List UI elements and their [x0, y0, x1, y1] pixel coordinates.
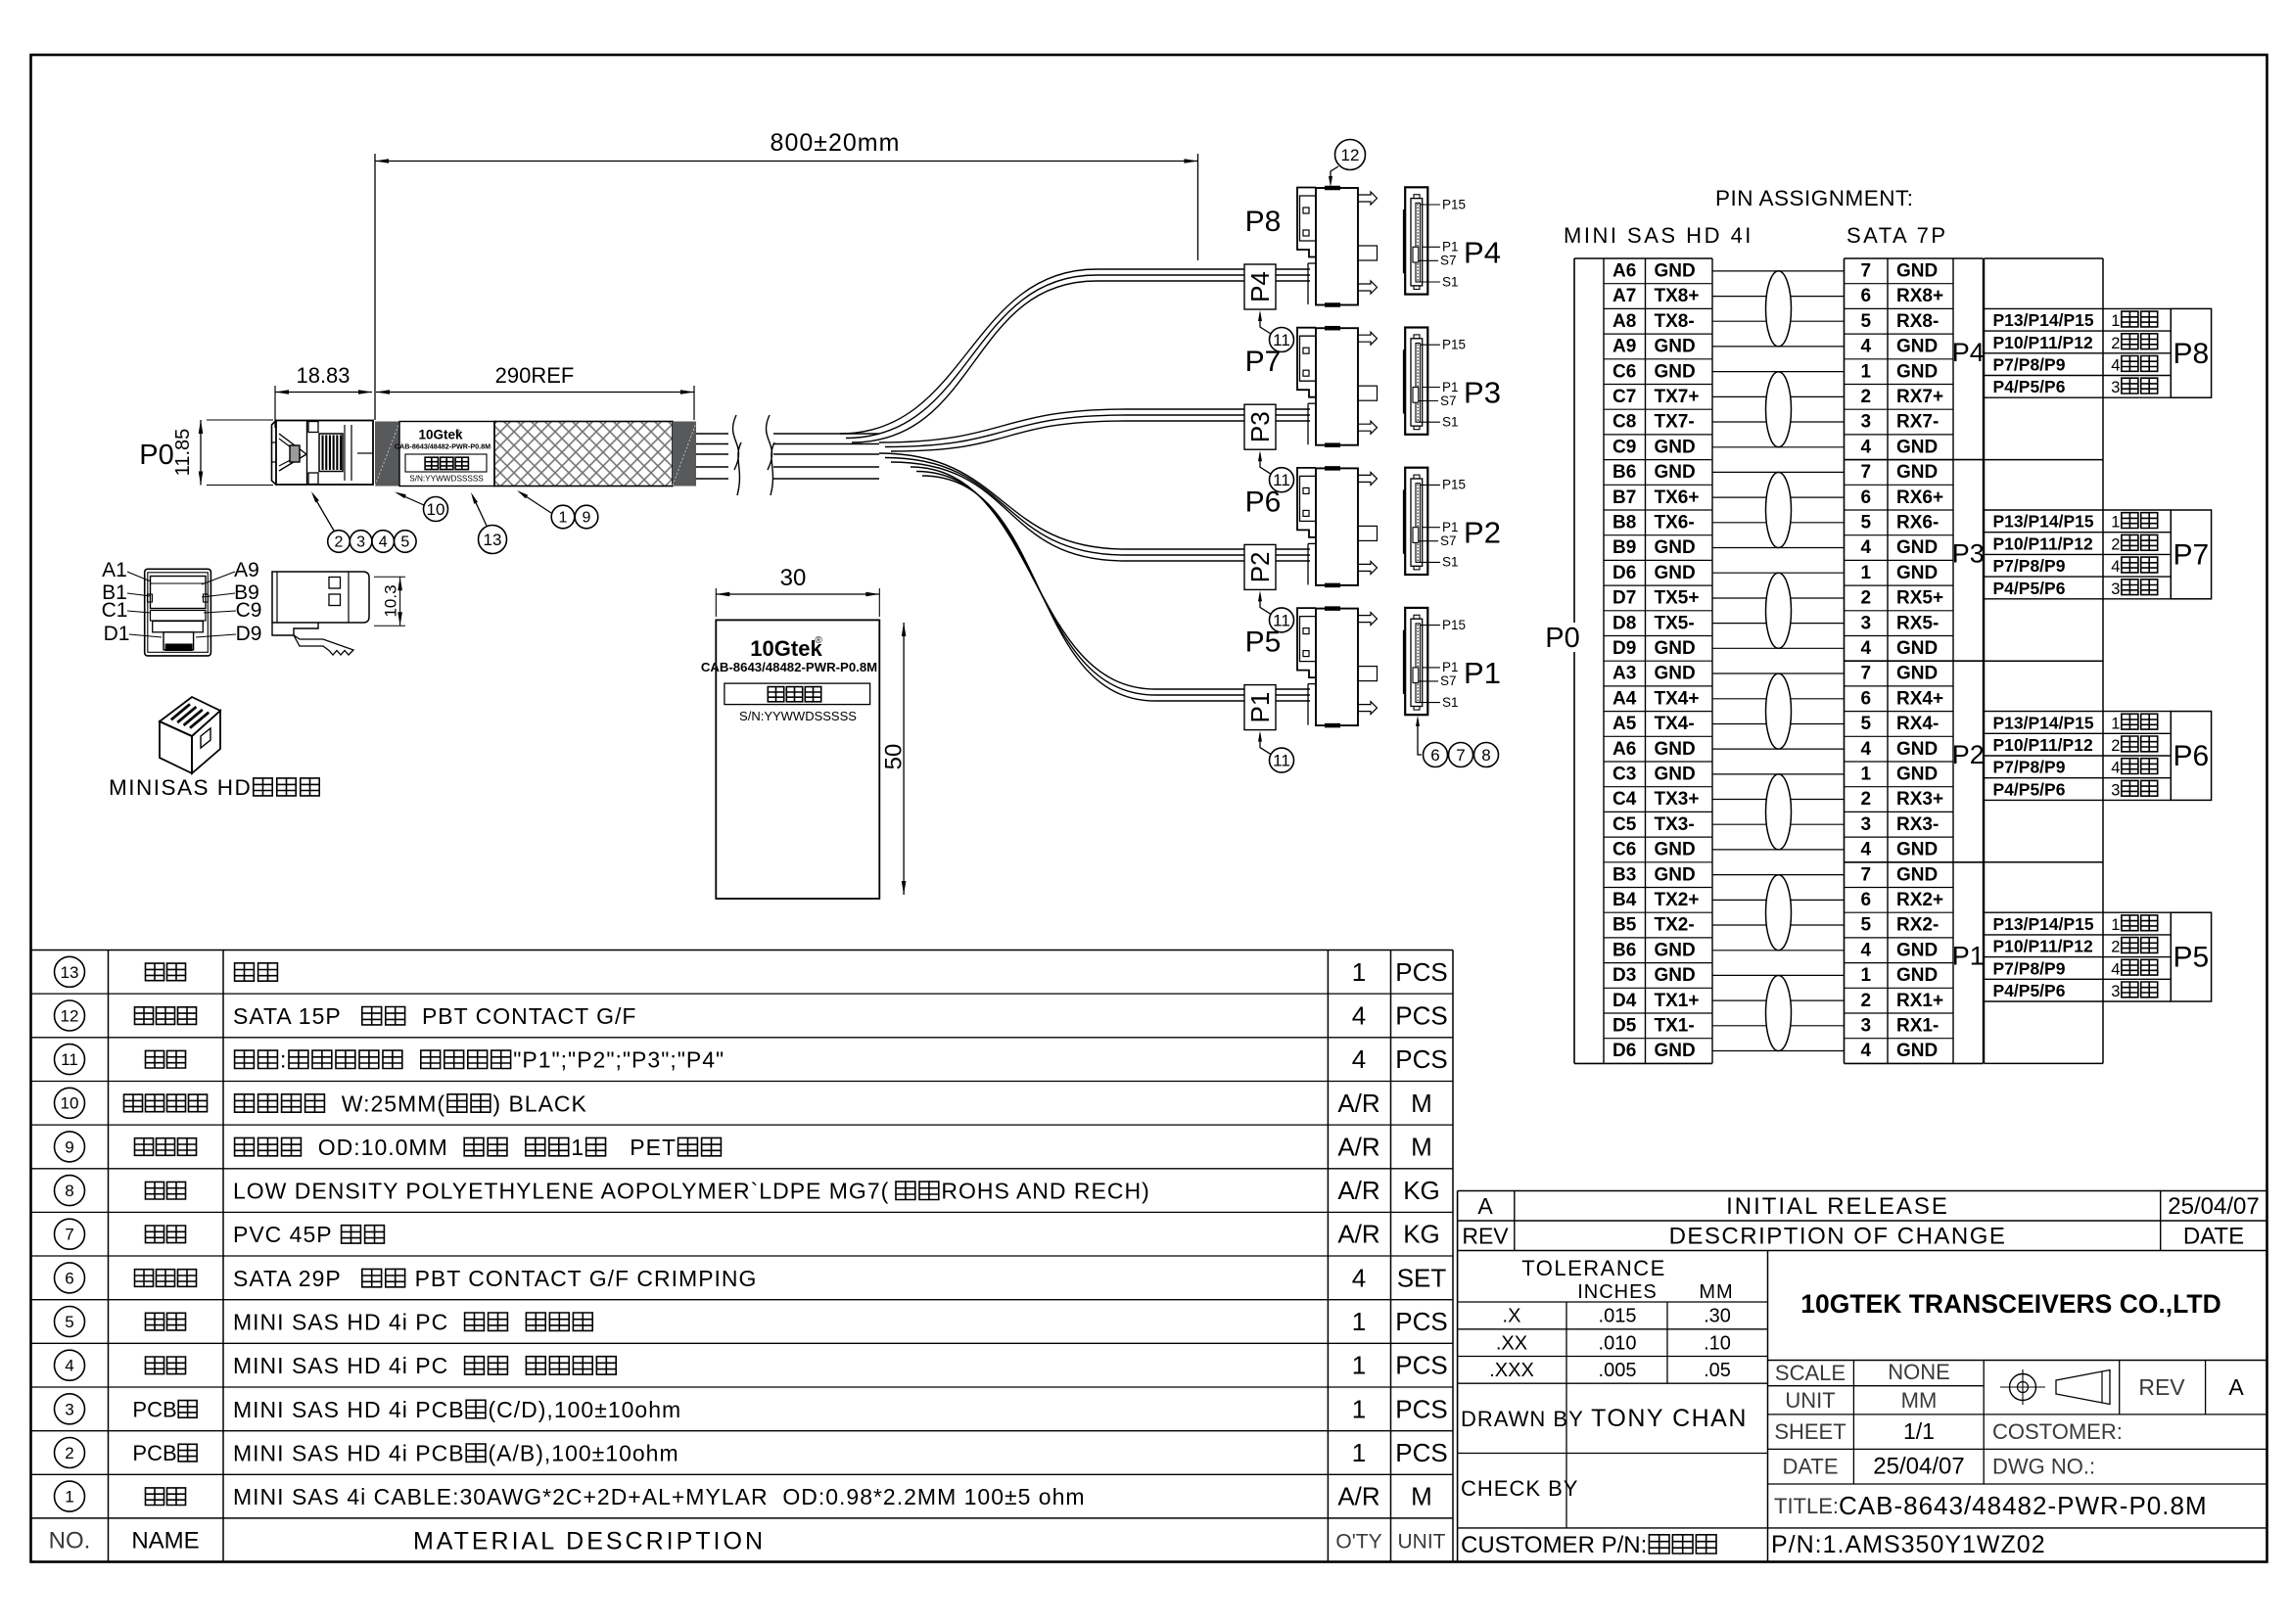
svg-text:MATERIAL DESCRIPTION: MATERIAL DESCRIPTION — [413, 1527, 766, 1554]
svg-text:12: 12 — [61, 1006, 79, 1025]
svg-text:4: 4 — [379, 534, 388, 551]
svg-text:1: 1 — [2111, 312, 2120, 330]
svg-text:P10/P11/P12: P10/P11/P12 — [1993, 735, 2093, 755]
svg-text:P7: P7 — [1245, 346, 1282, 378]
svg-text:1: 1 — [1352, 1351, 1366, 1380]
svg-text:NONE: NONE — [1888, 1360, 1950, 1384]
svg-text:13: 13 — [484, 531, 502, 549]
svg-text:RX1+: RX1+ — [1896, 991, 1943, 1011]
svg-text:TX8+: TX8+ — [1655, 286, 1700, 306]
svg-text:GND: GND — [1896, 864, 1938, 885]
BOM row item 6 — [55, 1263, 1447, 1293]
svg-text:PIN ASSIGNMENT:: PIN ASSIGNMENT: — [1715, 186, 1914, 210]
svg-text:P1: P1 — [1464, 656, 1501, 690]
svg-text:CAB-8643/48482-PWR-P0.8M: CAB-8643/48482-PWR-P0.8M — [701, 660, 877, 674]
svg-text:25/04/07: 25/04/07 — [2168, 1193, 2259, 1220]
svg-text:TX2-: TX2- — [1655, 915, 1695, 936]
svg-text:P15: P15 — [1442, 618, 1466, 632]
svg-text:P10/P11/P12: P10/P11/P12 — [1993, 333, 2093, 352]
svg-text:7: 7 — [1861, 664, 1872, 684]
svg-text:D5: D5 — [1612, 1016, 1637, 1037]
svg-text:C1: C1 — [102, 599, 128, 622]
svg-text:9: 9 — [583, 510, 591, 527]
svg-text:3: 3 — [1861, 1016, 1872, 1037]
svg-text:MM: MM — [1699, 1281, 1733, 1303]
svg-text:2: 2 — [2111, 737, 2120, 755]
svg-text:P4/P5/P6: P4/P5/P6 — [1993, 579, 2066, 598]
BOM row item 8 — [55, 1176, 1440, 1206]
svg-text:GND: GND — [1896, 664, 1938, 684]
svg-text:10GTEK TRANSCEIVERS CO.,LTD: 10GTEK TRANSCEIVERS CO.,LTD — [1800, 1289, 2220, 1319]
svg-text:290REF: 290REF — [495, 363, 575, 388]
svg-text:P3: P3 — [1464, 376, 1501, 410]
svg-text:S1: S1 — [1442, 274, 1459, 289]
svg-text::: : — [280, 1047, 287, 1073]
svg-text:LOW DENSITY POLYETHYLENE AOPOL: LOW DENSITY POLYETHYLENE AOPOLYMER`LDPE … — [233, 1179, 889, 1204]
svg-text:D6: D6 — [1612, 563, 1636, 583]
svg-text:B7: B7 — [1612, 487, 1636, 508]
svg-text:.X: .X — [1503, 1306, 1521, 1327]
svg-text:P2: P2 — [1952, 740, 1985, 769]
svg-text:B6: B6 — [1612, 462, 1636, 483]
svg-text:NAME: NAME — [131, 1527, 199, 1554]
svg-text:TX3+: TX3+ — [1655, 789, 1700, 810]
SATA 7P heading — [1846, 223, 1948, 248]
svg-text:S1: S1 — [1442, 555, 1459, 570]
svg-text:.05: .05 — [1704, 1360, 1731, 1381]
svg-text:A9: A9 — [1612, 337, 1636, 357]
svg-text:SET: SET — [1397, 1263, 1447, 1292]
svg-text:1: 1 — [1861, 563, 1872, 583]
BOM row item 4 — [55, 1350, 1448, 1380]
svg-text:TX4-: TX4- — [1655, 714, 1695, 734]
MINISAS HD dust cap 3D view — [160, 697, 220, 773]
MINI SAS HD 4I heading — [1564, 223, 1753, 248]
BOM row item 2 — [55, 1438, 1448, 1468]
svg-text:5: 5 — [1861, 311, 1872, 332]
svg-text:P5: P5 — [1245, 626, 1282, 659]
dimension 290REF — [376, 363, 694, 420]
svg-text:RX8-: RX8- — [1896, 311, 1939, 332]
svg-text:SATA 29P: SATA 29P — [233, 1266, 355, 1291]
braided mesh sleeve (items 1,9) — [494, 422, 673, 487]
connector P4 SATA 7P+15P receptacle (front) — [1404, 187, 1501, 294]
svg-text:GND: GND — [1896, 1041, 1938, 1061]
svg-text:P0: P0 — [139, 440, 173, 471]
svg-text:CHECK BY: CHECK BY — [1461, 1476, 1578, 1501]
svg-text:KG: KG — [1403, 1220, 1440, 1249]
svg-text:PCB: PCB — [132, 1441, 176, 1465]
circled 6 7 8 leader (SATA 29P connector) — [1416, 716, 1499, 767]
connector P2 SATA 7P+15P receptacle (front) — [1404, 468, 1501, 575]
svg-text:RX6-: RX6- — [1896, 513, 1939, 534]
svg-text:P15: P15 — [1442, 478, 1466, 492]
dimension 800±20mm — [375, 129, 1198, 420]
svg-text:GND: GND — [1896, 638, 1938, 659]
svg-text:C8: C8 — [1612, 412, 1636, 433]
MINISAS HD dust cap caption — [109, 775, 319, 800]
svg-text:P4/P5/P6: P4/P5/P6 — [1993, 981, 2066, 1000]
svg-text:3: 3 — [2111, 379, 2120, 396]
svg-text:11: 11 — [1273, 752, 1290, 770]
svg-text:7: 7 — [1861, 462, 1872, 483]
svg-text:PCS: PCS — [1395, 1394, 1447, 1423]
svg-text:4: 4 — [1352, 1001, 1366, 1031]
svg-text:PVC 45P: PVC 45P — [233, 1222, 340, 1247]
svg-text:9: 9 — [65, 1137, 73, 1156]
BOM material table — [31, 951, 1454, 1562]
svg-text:P3: P3 — [1952, 538, 1985, 568]
svg-text:D3: D3 — [1612, 965, 1636, 986]
svg-text:S/N:YYWWDSSSSS: S/N:YYWWDSSSSS — [409, 475, 484, 484]
svg-text:OD:10.0MM: OD:10.0MM — [304, 1135, 463, 1160]
connector P5 SATA 15P power (item 12) — [1245, 608, 1378, 725]
BOM row item 10 — [55, 1088, 1432, 1118]
wire bundle with break symbol — [696, 415, 879, 495]
svg-text:.10: .10 — [1704, 1332, 1731, 1354]
svg-text:TX6-: TX6- — [1655, 513, 1695, 534]
svg-text:D6: D6 — [1612, 1041, 1636, 1061]
revision row A INITIAL RELEASE — [1458, 1191, 2267, 1562]
connector P8 SATA 15P power (item 12) — [1245, 188, 1378, 305]
svg-text:GND: GND — [1655, 739, 1696, 760]
svg-text:3: 3 — [2111, 781, 2120, 799]
svg-text:MINI SAS HD 4i PCB: MINI SAS HD 4i PCB — [233, 1441, 465, 1466]
svg-text:P7: P7 — [2173, 538, 2210, 571]
svg-text:P2: P2 — [1245, 551, 1275, 582]
svg-text:P0: P0 — [1545, 623, 1579, 654]
BOM row item 5 — [55, 1307, 1448, 1337]
svg-text:2: 2 — [2111, 335, 2120, 352]
svg-text:8: 8 — [1481, 746, 1490, 765]
svg-text:GND: GND — [1896, 940, 1938, 960]
label box P4 on wire bundle (item 11) — [1244, 264, 1276, 309]
svg-text:3: 3 — [2111, 983, 2120, 1000]
color table group P8 — [1985, 308, 2212, 397]
customer p/n cell — [1461, 1532, 1716, 1558]
svg-text:GND: GND — [1655, 864, 1696, 885]
svg-text:SHEET: SHEET — [1774, 1419, 1846, 1444]
svg-text:P13/P14/P15: P13/P14/P15 — [1993, 914, 2094, 934]
svg-text:B9: B9 — [1612, 537, 1636, 558]
svg-text:"P1";"P2";"P3";"P4": "P1";"P2";"P3";"P4" — [513, 1047, 724, 1073]
svg-text:3: 3 — [2111, 580, 2120, 598]
svg-text:D7: D7 — [1612, 588, 1636, 609]
BOM row item 12 — [55, 1000, 1448, 1031]
svg-text:.005: .005 — [1599, 1360, 1637, 1381]
circled 2 3 4 5 callouts — [311, 491, 416, 552]
svg-text:C9: C9 — [236, 599, 262, 622]
svg-text:.010: .010 — [1599, 1332, 1637, 1354]
color table group P6 — [1985, 712, 2212, 801]
svg-text:10Gtek: 10Gtek — [750, 636, 822, 661]
svg-text:D9: D9 — [1612, 638, 1636, 659]
svg-text:.30: .30 — [1704, 1306, 1731, 1327]
svg-text:S/N:YYWWDSSSSS: S/N:YYWWDSSSSS — [739, 709, 857, 723]
svg-text:A7: A7 — [1612, 286, 1636, 306]
svg-text:GND: GND — [1655, 664, 1696, 684]
svg-text:13: 13 — [61, 963, 79, 982]
svg-text:P13/P14/P15: P13/P14/P15 — [1993, 512, 2094, 532]
label box P2 on wire bundle (item 11) — [1244, 544, 1276, 589]
svg-text:P8: P8 — [2173, 338, 2210, 370]
svg-text:GND: GND — [1655, 765, 1696, 785]
svg-text:P1: P1 — [1952, 942, 1985, 971]
svg-text:GND: GND — [1896, 840, 1938, 860]
svg-text:3: 3 — [1861, 814, 1872, 835]
svg-text:P6: P6 — [2173, 740, 2210, 772]
svg-text:5: 5 — [1861, 714, 1872, 734]
svg-text:TX5+: TX5+ — [1655, 588, 1700, 609]
svg-text:S1: S1 — [1442, 415, 1459, 430]
svg-text:TX7+: TX7+ — [1655, 387, 1700, 407]
svg-text:1: 1 — [1352, 1394, 1366, 1423]
svg-text:MINI SAS HD 4i PC: MINI SAS HD 4i PC — [233, 1310, 463, 1335]
dimension 50 (label height) — [881, 623, 908, 895]
svg-text:DATE: DATE — [1782, 1455, 1838, 1479]
svg-text:GND: GND — [1655, 462, 1696, 483]
svg-text:MINI SAS HD 4I: MINI SAS HD 4I — [1564, 223, 1753, 248]
circled 13 callout — [471, 492, 507, 554]
svg-text:M: M — [1411, 1089, 1432, 1118]
svg-text:PBT CONTACT G/F: PBT CONTACT G/F — [407, 1003, 636, 1029]
svg-text:TX6+: TX6+ — [1655, 487, 1700, 508]
svg-text:INITIAL RELEASE: INITIAL RELEASE — [1726, 1193, 1949, 1220]
svg-text:1: 1 — [1352, 1307, 1366, 1336]
svg-text:P13/P14/P15: P13/P14/P15 — [1993, 713, 2094, 732]
svg-text:C7: C7 — [1612, 387, 1636, 407]
svg-text:A/R: A/R — [1337, 1132, 1379, 1161]
svg-text:PCS: PCS — [1395, 1438, 1447, 1467]
svg-text:1: 1 — [1861, 361, 1872, 382]
svg-text:A5: A5 — [1612, 714, 1637, 734]
svg-text:PCS: PCS — [1395, 1307, 1447, 1336]
MINI SAS HD 4I pin table — [1574, 258, 1712, 1063]
svg-text:3: 3 — [65, 1400, 73, 1418]
svg-text:COSTOMER:: COSTOMER: — [1992, 1419, 2123, 1444]
P0 bracket label — [1545, 623, 1579, 654]
svg-text:GND: GND — [1896, 765, 1938, 785]
cable label detail drawing — [701, 620, 879, 899]
svg-text:A/R: A/R — [1337, 1176, 1379, 1205]
svg-text:4: 4 — [1861, 337, 1872, 357]
svg-text:SATA 15P: SATA 15P — [233, 1003, 355, 1029]
svg-text:GND: GND — [1896, 537, 1938, 558]
svg-text:800±20mm: 800±20mm — [771, 129, 901, 157]
svg-text:.XX: .XX — [1496, 1332, 1527, 1354]
svg-text:RX3-: RX3- — [1896, 814, 1939, 835]
svg-text:DRAWN BY: DRAWN BY — [1461, 1407, 1584, 1431]
svg-text:P1: P1 — [1442, 380, 1459, 394]
svg-text:PCS: PCS — [1395, 1044, 1447, 1074]
svg-text:5: 5 — [400, 534, 409, 551]
svg-text:MINI SAS HD 4i PC: MINI SAS HD 4i PC — [233, 1353, 463, 1378]
svg-text:GND: GND — [1655, 437, 1696, 457]
svg-text:MM: MM — [1901, 1388, 1938, 1413]
company name — [1768, 1289, 2267, 1361]
svg-text:S1: S1 — [1442, 695, 1459, 710]
svg-text:P1: P1 — [1442, 240, 1459, 255]
svg-text:M: M — [1411, 1482, 1432, 1511]
svg-text:REV: REV — [1462, 1224, 1509, 1249]
svg-text:B3: B3 — [1612, 864, 1636, 885]
svg-text:CAB-8643/48482-PWR-P0.8M: CAB-8643/48482-PWR-P0.8M — [395, 442, 491, 451]
svg-text:RX2+: RX2+ — [1896, 890, 1943, 910]
connector P7 SATA 15P power (item 12) — [1245, 328, 1378, 445]
svg-text:P1: P1 — [1442, 520, 1459, 534]
svg-text:P3: P3 — [1245, 411, 1275, 442]
svg-text:7: 7 — [1861, 864, 1872, 885]
svg-text:KG: KG — [1403, 1176, 1440, 1205]
svg-text:C5: C5 — [1612, 814, 1637, 835]
scale/unit/sheet/date grid — [1768, 1360, 2267, 1484]
circled 11 leader for P3 — [1258, 450, 1294, 492]
svg-text:1: 1 — [1352, 1438, 1366, 1467]
svg-text:PET: PET — [608, 1135, 677, 1160]
svg-text:PCS: PCS — [1395, 1001, 1447, 1031]
svg-text:®: ® — [455, 429, 461, 437]
svg-text:3: 3 — [1861, 613, 1872, 633]
circled 11 leader for P4 — [1258, 310, 1294, 352]
connector P3 SATA 7P+15P receptacle (front) — [1404, 328, 1501, 435]
svg-text:2: 2 — [1861, 789, 1872, 810]
svg-text:DESCRIPTION OF CHANGE: DESCRIPTION OF CHANGE — [1669, 1224, 2007, 1250]
svg-text:P15: P15 — [1442, 338, 1466, 352]
svg-text:TX1+: TX1+ — [1655, 991, 1700, 1011]
fanout wire bundles to P8/P7/P6/P5 — [840, 269, 1310, 701]
svg-text:B4: B4 — [1612, 890, 1637, 910]
svg-text:P4: P4 — [1245, 271, 1275, 302]
svg-text:ROHS AND RECH): ROHS AND RECH) — [941, 1179, 1149, 1204]
circled 10 callout — [395, 492, 448, 522]
svg-text:PCS: PCS — [1395, 957, 1447, 987]
svg-text:A4: A4 — [1612, 688, 1637, 709]
svg-text:1: 1 — [571, 1135, 584, 1160]
connector P1 SATA 7P+15P receptacle (front) — [1404, 608, 1501, 715]
svg-text:7: 7 — [1456, 746, 1465, 765]
title and part number — [1771, 1491, 2208, 1558]
svg-text:CUSTOMER P/N:: CUSTOMER P/N: — [1461, 1532, 1647, 1558]
svg-text:SATA 7P: SATA 7P — [1846, 223, 1948, 248]
svg-text:1: 1 — [1861, 965, 1872, 986]
svg-text:GND: GND — [1655, 638, 1696, 659]
tolerance table — [1458, 1251, 1768, 1562]
svg-text:A6: A6 — [1612, 261, 1636, 282]
color table group P5 — [1985, 912, 2212, 1001]
svg-text:P7/P8/P9: P7/P8/P9 — [1993, 758, 2066, 777]
svg-text:B5: B5 — [1612, 915, 1637, 936]
svg-text:C6: C6 — [1612, 840, 1636, 860]
svg-text:18.83: 18.83 — [296, 363, 350, 388]
BOM row item 9 — [55, 1132, 1432, 1162]
P4 P3 P2 P1 group bracket labels — [1952, 338, 1985, 971]
svg-text:A/R: A/R — [1337, 1089, 1379, 1118]
svg-text:P6: P6 — [1245, 486, 1282, 518]
svg-text:O'TY: O'TY — [1335, 1530, 1381, 1553]
svg-text:1: 1 — [2111, 916, 2120, 934]
svg-text:2: 2 — [2111, 939, 2120, 956]
third angle projection symbol — [2000, 1361, 2244, 1415]
svg-text:A6: A6 — [1612, 739, 1636, 760]
svg-text:A/R: A/R — [1337, 1220, 1379, 1249]
svg-text:P10/P11/P12: P10/P11/P12 — [1993, 534, 2093, 553]
svg-text:2: 2 — [65, 1444, 73, 1462]
svg-text:RX5-: RX5- — [1896, 613, 1939, 633]
svg-text:(A/B),100±10ohm: (A/B),100±10ohm — [489, 1441, 679, 1466]
PIN ASSIGNMENT heading — [1715, 186, 1914, 210]
connector P0 MINI SAS HD 4i plug (side view) — [272, 421, 374, 486]
svg-text:DWG NO.:: DWG NO.: — [1992, 1455, 2095, 1479]
svg-text:8: 8 — [65, 1182, 73, 1200]
svg-text:D8: D8 — [1612, 613, 1636, 633]
svg-text:C6: C6 — [1612, 361, 1636, 382]
svg-text:GND: GND — [1896, 361, 1938, 382]
svg-text:TX3-: TX3- — [1655, 814, 1695, 835]
svg-text:4: 4 — [2111, 960, 2120, 978]
svg-text:5: 5 — [1861, 513, 1872, 534]
svg-text:P2: P2 — [1464, 516, 1501, 550]
svg-text:4: 4 — [65, 1357, 73, 1375]
svg-text:INCHES: INCHES — [1577, 1281, 1658, 1303]
svg-text:MINISAS HD: MINISAS HD — [109, 775, 252, 800]
connector front view pinout A1-D9 — [102, 559, 262, 656]
circled 12 leader (SATA 15P connector) — [1329, 140, 1366, 188]
svg-text:P4: P4 — [1952, 338, 1985, 367]
svg-text:RX7-: RX7- — [1896, 412, 1939, 433]
svg-text:GND: GND — [1655, 337, 1696, 357]
svg-text:1: 1 — [2111, 715, 2120, 732]
svg-text:P5: P5 — [2173, 942, 2210, 974]
svg-text:A: A — [1477, 1193, 1493, 1219]
svg-text:C4: C4 — [1612, 789, 1637, 810]
svg-text:W:25MM(: W:25MM( — [327, 1090, 445, 1116]
svg-text:TX5-: TX5- — [1655, 613, 1695, 633]
tape band (item 10) left — [375, 422, 399, 487]
svg-text:3: 3 — [356, 534, 365, 551]
svg-text:B6: B6 — [1612, 940, 1636, 960]
svg-text:TONY CHAN: TONY CHAN — [1591, 1405, 1748, 1432]
svg-text:MINI SAS 4i CABLE:30AWG*2C+2D+: MINI SAS 4i CABLE:30AWG*2C+2D+AL+MYLAR O… — [233, 1484, 1086, 1509]
svg-text:4: 4 — [1352, 1044, 1366, 1074]
svg-text:4: 4 — [1861, 840, 1872, 860]
svg-text:4: 4 — [2111, 558, 2120, 576]
svg-text:1: 1 — [1352, 957, 1366, 987]
svg-text:4: 4 — [1861, 437, 1872, 457]
svg-text:GND: GND — [1896, 261, 1938, 282]
svg-text:UNIT: UNIT — [1398, 1530, 1446, 1553]
svg-text:RX3+: RX3+ — [1896, 789, 1943, 810]
svg-text:RX4-: RX4- — [1896, 714, 1939, 734]
svg-text:11: 11 — [61, 1050, 78, 1069]
svg-text:P1: P1 — [1442, 660, 1459, 674]
svg-text:TX8-: TX8- — [1655, 311, 1695, 332]
svg-text:C3: C3 — [1612, 765, 1636, 785]
svg-text:GND: GND — [1655, 965, 1696, 986]
svg-text:TOLERANCE: TOLERANCE — [1521, 1256, 1666, 1280]
svg-text:P/N:1.AMS350Y1WZ02: P/N:1.AMS350Y1WZ02 — [1771, 1531, 2046, 1558]
svg-text:.015: .015 — [1599, 1306, 1637, 1327]
svg-text:P13/P14/P15: P13/P14/P15 — [1993, 310, 2094, 330]
svg-text:7: 7 — [1861, 261, 1872, 282]
svg-text:PBT CONTACT G/F CRIMPING: PBT CONTACT G/F CRIMPING — [407, 1266, 757, 1291]
svg-text:) BLACK: ) BLACK — [492, 1090, 586, 1116]
svg-text:GND: GND — [1655, 563, 1696, 583]
BOM row item 1 — [55, 1481, 1432, 1511]
svg-text:A1: A1 — [102, 559, 127, 581]
svg-text:TITLE:: TITLE: — [1774, 1494, 1839, 1518]
svg-text:1/1: 1/1 — [1903, 1418, 1935, 1444]
svg-text:P4/P5/P6: P4/P5/P6 — [1993, 779, 2066, 799]
